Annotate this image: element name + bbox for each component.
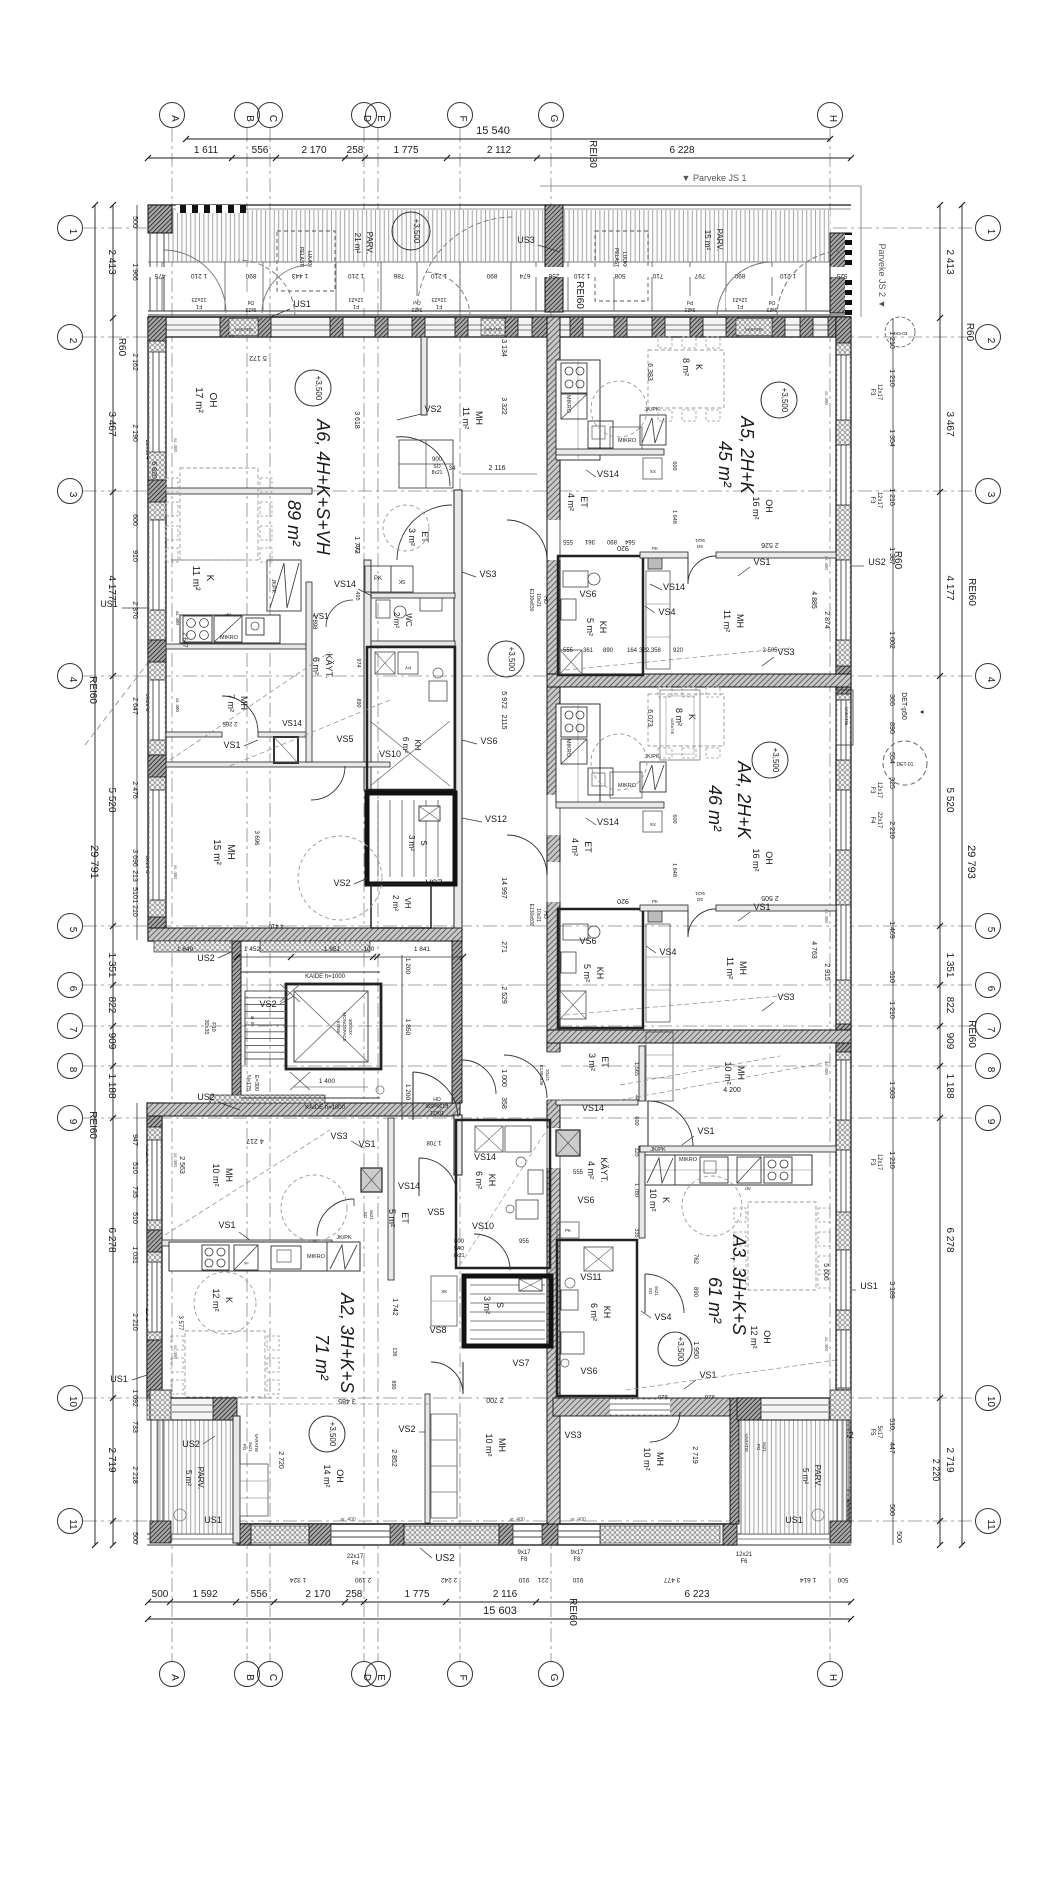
svg-text:VARATIE: VARATIE [254, 1434, 259, 1453]
svg-text:358: 358 [500, 1097, 507, 1109]
svg-text:564: 564 [624, 538, 635, 544]
svg-text:MIKRO: MIKRO [565, 395, 571, 414]
svg-text:1 951: 1 951 [324, 946, 341, 953]
svg-text:ar. 0: ar. 0 [250, 1016, 255, 1025]
A6 wall K-MH7 [166, 644, 306, 649]
svg-text:500: 500 [131, 1532, 138, 1544]
A6 ET entry door arc [397, 505, 452, 560]
svg-text:5x17: 5x17 [876, 1425, 882, 1439]
svg-text:VARATIE: VARATIE [745, 327, 764, 332]
bottom wall insulation segments [251, 1526, 309, 1543]
svg-text:11 m²: 11 m² [190, 566, 201, 591]
A2 sauna heater [519, 1279, 542, 1291]
svg-text:10x21: 10x21 [535, 593, 541, 607]
svg-text:890: 890 [355, 698, 361, 707]
balcony door arc left mid [417, 217, 513, 312]
svg-text:K: K [224, 1297, 234, 1303]
svg-text:164: 164 [627, 648, 638, 654]
svg-text:3 618: 3 618 [353, 411, 360, 429]
svg-text:XS: XS [650, 822, 656, 827]
svg-text:US2: US2 [197, 953, 215, 963]
svg-text:1 031: 1 031 [131, 1246, 138, 1264]
svg-text:VS1: VS1 [753, 557, 770, 567]
svg-text:2115: 2115 [500, 714, 507, 729]
A5 KH walls [558, 556, 643, 675]
svg-text:F1: F1 [196, 303, 202, 309]
svg-text:US2: US2 [182, 1439, 200, 1449]
door arc A2 balcony [171, 1455, 233, 1517]
door arc balcony A6 OH [238, 260, 295, 317]
svg-text:C: C [267, 115, 278, 122]
A2 KH dashed diagonal [460, 1128, 548, 1265]
svg-text:K: K [687, 714, 697, 720]
svg-text:+3,500: +3,500 [412, 219, 421, 244]
svg-text:890: 890 [603, 648, 614, 654]
A4 kitchen counter [556, 704, 600, 804]
svg-text:3 189: 3 189 [888, 1281, 895, 1299]
svg-text:1 850: 1 850 [404, 1019, 411, 1036]
checker strip right balcony [845, 233, 852, 318]
stair rail line vertical [401, 955, 403, 1120]
svg-text:6 m²: 6 m² [401, 737, 410, 753]
svg-text:2 413: 2 413 [106, 249, 117, 274]
A4 fridge [640, 762, 666, 792]
svg-text:VARATIE: VARATIE [744, 1434, 749, 1453]
svg-text:1 210: 1 210 [888, 369, 895, 387]
svg-text:890: 890 [888, 722, 895, 734]
svg-text:HO: HO [542, 911, 548, 919]
left small dimension chain lower [136, 1103, 138, 1545]
svg-text:KONE: KONE [336, 1021, 341, 1034]
svg-text:2 505: 2 505 [762, 648, 778, 654]
exterior wall left lower A2 [147, 1103, 162, 1400]
svg-text:ET: ET [579, 496, 589, 508]
svg-text:4: 4 [985, 677, 996, 683]
svg-text:5: 5 [985, 927, 996, 933]
svg-text:VS10: VS10 [379, 749, 401, 759]
svg-text:2: 2 [67, 338, 78, 344]
svg-text:2 526: 2 526 [761, 541, 779, 548]
A6 dishwasher AP [214, 616, 242, 642]
svg-text:6: 6 [985, 986, 996, 992]
A5-A4 party wall horizontal [547, 674, 851, 687]
svg-text:2 116: 2 116 [489, 465, 506, 472]
svg-text:MH: MH [497, 1438, 507, 1452]
svg-text:Od: Od [768, 299, 775, 305]
svg-text:2 162: 2 162 [131, 353, 138, 371]
svg-text:3 m²: 3 m² [587, 1053, 597, 1071]
bottom balcony right top wall [737, 1398, 851, 1420]
grid bubbles bottom A-H [160, 1662, 185, 1687]
svg-text:4 m²: 4 m² [586, 1161, 596, 1179]
svg-text:REI60: REI60 [87, 676, 98, 704]
A2 duct box [361, 1168, 382, 1192]
A6 closet MH11 [399, 440, 453, 488]
svg-text:REI60: REI60 [574, 281, 585, 309]
svg-text:17 m²: 17 m² [193, 387, 204, 413]
svg-text:KAIDE h=1000: KAIDE h=1000 [305, 974, 346, 980]
door arc stair entry [462, 1060, 496, 1094]
svg-text:29 793: 29 793 [965, 845, 977, 879]
svg-text:5 m²: 5 m² [585, 618, 595, 636]
svg-text:S: S [419, 840, 428, 845]
svg-text:1 648: 1 648 [671, 863, 677, 877]
svg-text:9x21: 9x21 [762, 1442, 767, 1452]
svg-text:OH: OH [764, 499, 774, 513]
A4 sink [588, 768, 613, 795]
svg-text:OH: OH [335, 1469, 345, 1483]
svg-text:71 m²: 71 m² [312, 1334, 332, 1381]
A3 duct box [556, 1130, 580, 1156]
svg-text:US1: US1 [860, 1281, 878, 1291]
svg-text:F3: F3 [869, 786, 875, 794]
svg-text:213: 213 [131, 870, 138, 882]
svg-text:797: 797 [694, 272, 705, 279]
svg-text:F5: F5 [869, 1428, 875, 1436]
svg-text:1 780: 1 780 [633, 1183, 639, 1197]
A4 MH dashed diagonal [565, 995, 790, 1015]
svg-text:1 092: 1 092 [131, 1389, 138, 1407]
door arc A6 MH11 [396, 437, 450, 486]
svg-text:1 002: 1 002 [888, 631, 895, 649]
svg-text:E: E [375, 1674, 386, 1681]
svg-text:510: 510 [888, 971, 895, 983]
svg-text:VS2: VS2 [398, 1424, 415, 1434]
svg-text:2 265: 2 265 [222, 720, 238, 726]
svg-text:PO: PO [756, 1444, 761, 1451]
A4 stove [561, 707, 587, 737]
svg-text:9x23: 9x23 [766, 306, 777, 312]
svg-text:322,358: 322,358 [639, 648, 661, 654]
bottom balcony front railing left [147, 1533, 237, 1535]
svg-text:890: 890 [486, 272, 497, 279]
top dimension chain segments [148, 157, 851, 159]
svg-text:+3,500: +3,500 [507, 647, 516, 672]
A6 bottom wall / stair north wall [148, 928, 462, 941]
A2 sauna benches [470, 1284, 545, 1286]
svg-text:4 177: 4 177 [944, 575, 955, 600]
svg-text:500: 500 [837, 1576, 848, 1583]
bottom wall dark segments [237, 1524, 251, 1545]
A2 VS2 wall [425, 1394, 430, 1523]
svg-text:1 443: 1 443 [291, 272, 308, 279]
svg-text:VS7: VS7 [512, 1358, 529, 1368]
svg-text:REI60: REI60 [966, 578, 977, 606]
level circle +3,500 top balcony [392, 212, 430, 250]
stair door button circle [376, 1086, 384, 1094]
svg-text:ar. 400: ar. 400 [173, 865, 178, 879]
svg-text:5 m²: 5 m² [387, 1209, 397, 1227]
svg-text:E130e830: E130e830 [539, 1065, 544, 1086]
balcony door labels 9x23 [240, 296, 262, 309]
A2 MH dashed diagonal [165, 1130, 330, 1235]
svg-text:US2: US2 [197, 1092, 215, 1102]
svg-text:12x23: 12x23 [733, 296, 748, 302]
svg-text:VS14: VS14 [597, 817, 619, 827]
stair hall dims [237, 956, 463, 958]
balcony drain right [812, 1509, 824, 1521]
A6 wall OH-K [166, 488, 312, 494]
svg-text:12x17: 12x17 [876, 1154, 882, 1171]
svg-text:447: 447 [888, 1442, 895, 1454]
pelastusluukku dashed rect right [595, 231, 648, 301]
svg-text:REI60: REI60 [87, 1111, 98, 1139]
right small dimension chain [892, 318, 894, 1545]
svg-text:3 477: 3 477 [663, 1576, 680, 1583]
svg-text:F3: F3 [869, 496, 875, 504]
A5 ET walls [556, 449, 664, 455]
svg-text:2 647: 2 647 [131, 697, 138, 715]
A3 kitchen counter [645, 1155, 812, 1185]
svg-text:1 772: 1 772 [353, 536, 360, 554]
bottom balcony left floor [158, 1420, 233, 1534]
balcony mullions [161, 262, 163, 311]
A5 MH wardrobe [646, 571, 670, 669]
A6 WC fixtures [376, 600, 390, 618]
svg-text:2 112: 2 112 [487, 145, 512, 156]
svg-text:2 210: 2 210 [131, 1313, 138, 1331]
svg-text:325: 325 [888, 777, 895, 789]
label +3,500 corridor circle [488, 641, 524, 677]
A5 dining table dashed [648, 350, 724, 408]
svg-text:2 170: 2 170 [305, 1589, 330, 1600]
A2 dining table dashed [185, 1331, 265, 1397]
A6 interior wall vertical lower [364, 560, 371, 790]
svg-text:2 898: 2 898 [311, 614, 317, 630]
balcony door arc A6 OH [262, 265, 310, 313]
svg-text:F1: F1 [353, 303, 359, 309]
A4 XS closet [643, 811, 662, 832]
svg-text:1 950: 1 950 [692, 1341, 699, 1359]
svg-text:9x17: 9x17 [517, 1550, 531, 1556]
svg-text:DET-01: DET-01 [897, 762, 914, 768]
svg-text:+3,500: +3,500 [314, 376, 323, 401]
svg-text:7 m²: 7 m² [226, 694, 236, 712]
A6 kitchen counter [180, 615, 280, 643]
svg-text:361: 361 [583, 648, 594, 654]
A3 MH door arc [647, 1101, 649, 1146]
svg-text:9: 9 [67, 1119, 78, 1125]
exterior wall top dark segments [148, 317, 162, 337]
A3 OH dashed diagonal [626, 1360, 836, 1390]
svg-text:256: 256 [548, 272, 559, 279]
A3 MH dashed diagonal [620, 1062, 830, 1100]
svg-text:VS14: VS14 [474, 1152, 496, 1162]
A6 sauna benches [377, 800, 379, 877]
svg-text:VS4: VS4 [659, 947, 676, 957]
svg-text:MH: MH [474, 411, 484, 425]
A6 laundry appliances [375, 652, 395, 674]
svg-text:VS6: VS6 [579, 589, 596, 599]
svg-text:MIKRO: MIKRO [565, 739, 571, 758]
svg-text:12x17: 12x17 [876, 492, 882, 509]
svg-text:PK: PK [565, 1228, 571, 1233]
corridor dim 2 116 [462, 473, 537, 475]
svg-text:4: 4 [67, 677, 78, 683]
svg-text:F10: F10 [210, 1022, 216, 1031]
svg-text:PK: PK [652, 546, 658, 551]
svg-text:500: 500 [152, 1589, 169, 1600]
svg-text:1 210: 1 210 [573, 272, 590, 279]
svg-text:5 520: 5 520 [944, 787, 955, 812]
A2 KH walls [456, 1120, 550, 1268]
A3 wall MH bottom [640, 1146, 836, 1152]
svg-text:+3,500: +3,500 [771, 748, 780, 773]
svg-text:556: 556 [252, 145, 269, 156]
A2 sink [271, 1246, 301, 1269]
svg-text:1 351: 1 351 [944, 952, 955, 977]
svg-text:500: 500 [888, 1504, 895, 1516]
svg-text:VS14: VS14 [597, 469, 619, 479]
svg-text:VS3: VS3 [330, 1131, 347, 1141]
svg-text:12x23: 12x23 [432, 296, 447, 302]
svg-text:890: 890 [245, 272, 256, 279]
left wall window gaps [150, 352, 165, 452]
right dimension chain segments [939, 205, 941, 1545]
dim 1 400 below elevator [294, 1086, 368, 1088]
A5 MH door arc [688, 556, 716, 584]
svg-text:510: 510 [131, 887, 138, 899]
svg-text:1 775: 1 775 [393, 145, 418, 156]
svg-text:2 218: 2 218 [131, 1466, 138, 1484]
right dimension chain outer 29 793 [961, 205, 963, 1545]
svg-text:1 210: 1 210 [888, 1151, 895, 1169]
svg-text:34: 34 [449, 466, 456, 472]
A6 PK closet [365, 566, 391, 592]
svg-text:909: 909 [106, 1033, 117, 1050]
svg-text:E=300: E=300 [253, 1075, 259, 1091]
top balcony left end wall [148, 205, 172, 233]
A6 MH15 turning circle dashed [298, 836, 382, 920]
svg-text:US2: US2 [868, 557, 886, 567]
svg-text:PO: PO [242, 1444, 247, 1451]
svg-text:5 172: 5 172 [249, 354, 267, 361]
svg-text:5 972: 5 972 [500, 691, 507, 709]
svg-text:2 874: 2 874 [823, 611, 830, 629]
stair treads [245, 990, 286, 992]
svg-text:C: C [267, 1674, 278, 1681]
svg-text:1 000: 1 000 [500, 1069, 507, 1087]
svg-text:E130e830: E130e830 [528, 904, 534, 927]
A3 MH wardrobe [646, 1032, 673, 1101]
svg-text:ar. 400: ar. 400 [173, 1153, 178, 1167]
svg-text:B: B [244, 1674, 255, 1681]
svg-text:510: 510 [131, 1162, 138, 1174]
svg-text:12x17: 12x17 [876, 384, 882, 401]
svg-text:HO: HO [542, 596, 548, 604]
A6 SK closet MH15 [274, 737, 298, 763]
svg-text:KÄYT.: KÄYT. [324, 653, 334, 678]
svg-text:A: A [169, 1674, 180, 1681]
A2 interior wall vertical [388, 1118, 394, 1280]
svg-text:ar. 400: ar. 400 [824, 1061, 829, 1075]
svg-text:F6: F6 [740, 1559, 748, 1565]
svg-text:3 m²: 3 m² [407, 835, 416, 851]
svg-text:5 m²: 5 m² [582, 964, 592, 982]
svg-text:VS5: VS5 [427, 1207, 444, 1217]
svg-text:2 170: 2 170 [301, 145, 326, 156]
party wall door gaps [546, 520, 561, 560]
A6 sauna S walls [367, 793, 455, 884]
left balcony wall honey pieces [150, 1390, 171, 1420]
A3 KH door arc [645, 1274, 684, 1313]
svg-text:MH: MH [655, 1452, 665, 1466]
svg-text:4 885: 4 885 [810, 591, 817, 609]
svg-text:947: 947 [131, 1134, 138, 1146]
svg-text:ar. 400: ar. 400 [824, 1337, 829, 1351]
svg-text:3 322: 3 322 [500, 397, 507, 415]
svg-text:ar. 400: ar. 400 [509, 1517, 525, 1523]
svg-text:JK/PK: JK/PK [270, 579, 276, 594]
A5 level circle [761, 382, 797, 418]
svg-text:508: 508 [614, 272, 625, 279]
svg-text:ar. 400: ar. 400 [824, 391, 829, 405]
svg-text:VH: VH [403, 897, 412, 908]
svg-text:61 m²: 61 m² [705, 1277, 725, 1324]
svg-text:REI60: REI60 [966, 1020, 977, 1048]
A2 wall MH-K VS1 [162, 1240, 332, 1246]
svg-text:US2: US2 [435, 1553, 455, 1564]
svg-text:5 m²: 5 m² [801, 1468, 810, 1484]
svg-text:US3: US3 [517, 235, 535, 245]
svg-text:Pd: Pd [687, 299, 693, 305]
A2 top wall [147, 1103, 460, 1116]
svg-text:ar. 400: ar. 400 [175, 611, 180, 625]
A2 kitchen counter [169, 1242, 360, 1271]
svg-text:100: 100 [364, 946, 375, 953]
A3 MH bottom window gap [610, 1400, 670, 1415]
svg-text:F1: F1 [436, 303, 442, 309]
svg-text:14 997: 14 997 [500, 877, 507, 899]
bottom balcony right floor [741, 1420, 847, 1534]
svg-text:300X0X: 300X0X [348, 1019, 353, 1035]
A6 SK closet [391, 566, 413, 592]
svg-text:10 m²: 10 m² [484, 1433, 494, 1456]
svg-text:30x35: 30x35 [203, 1020, 209, 1035]
A4 PK box [648, 908, 662, 922]
svg-text:VS2: VS2 [424, 404, 441, 414]
A6 KH walls [367, 647, 455, 790]
A6 level circle [295, 370, 331, 406]
svg-text:VS6: VS6 [577, 1195, 594, 1205]
bottom dimension chain total 15 603 [148, 1618, 851, 1620]
svg-text:674: 674 [519, 272, 530, 279]
svg-text:500: 500 [131, 216, 138, 228]
A5 KH fixtures [563, 571, 588, 587]
svg-text:MH: MH [738, 961, 748, 975]
bottom wall window gaps [331, 1526, 390, 1544]
svg-text:710: 710 [652, 272, 663, 279]
A4 ET walls [556, 802, 664, 808]
svg-text:361: 361 [584, 538, 595, 544]
svg-text:ar. 400: ar. 400 [824, 909, 829, 923]
svg-text:MH: MH [224, 1168, 234, 1182]
bottom exterior wall band [237, 1524, 737, 1545]
bottom balcony front railing right [737, 1533, 851, 1535]
svg-text:VS14: VS14 [334, 579, 356, 589]
svg-text:SO: SO [363, 1212, 368, 1219]
svg-text:1 200: 1 200 [404, 958, 411, 975]
svg-text:6 383: 6 383 [646, 363, 653, 381]
svg-text:A5, 2H+K: A5, 2H+K [737, 415, 757, 495]
elevator shaft [286, 984, 381, 1069]
svg-text:OH: OH [762, 1330, 772, 1344]
svg-text:MH: MH [239, 696, 249, 710]
svg-text:6 278: 6 278 [106, 1227, 117, 1252]
svg-text:ar. 400: ar. 400 [173, 438, 178, 452]
svg-text:VS3: VS3 [777, 992, 794, 1002]
svg-text:VS10: VS10 [472, 1221, 494, 1231]
